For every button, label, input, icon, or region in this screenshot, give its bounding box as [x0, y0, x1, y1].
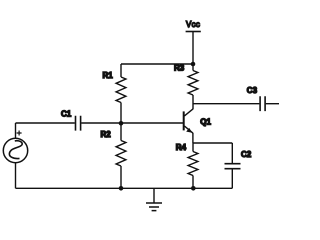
wire top rail R1 to Vcc node: [121, 63, 193, 65]
wire emitter vertical to node: [192, 133, 194, 143]
svg-text:C2: C2: [241, 150, 252, 159]
wire C3 right stub: [266, 103, 279, 105]
transistor Q1 emitter diagonal: [184, 126, 193, 133]
wire output branch to C3: [193, 103, 259, 105]
node R4 bottom junction: [191, 186, 196, 191]
wire C2 top lead: [231, 143, 233, 163]
AC source V1 circle: [3, 138, 27, 162]
capacitor C1: [76, 116, 81, 131]
wire emitter node to C2 branch: [193, 142, 232, 144]
capacitor C2: [225, 164, 241, 169]
transistor Q1 emitter arrowhead: [186, 128, 192, 133]
wire input horizontal to C1: [16, 122, 75, 124]
wire C1 to base node: [81, 122, 121, 124]
wire R4 bottom lead: [192, 176, 194, 189]
resistor R4: [188, 152, 198, 176]
wire R1 bottom lead: [120, 103, 122, 124]
svg-text:C1: C1: [61, 109, 72, 118]
wire bottom rail: [16, 187, 233, 189]
resistor R1: [116, 77, 126, 103]
wire R3 bottom lead to collector: [192, 95, 194, 109]
ground bars: [146, 203, 162, 211]
wire R2 bottom lead: [120, 166, 122, 188]
wire Vcc stem: [192, 32, 194, 65]
resistor R2: [116, 141, 126, 167]
resistor R3: [188, 71, 198, 96]
wire base node to transistor base: [121, 122, 183, 124]
wire R2 top lead: [120, 123, 122, 140]
ground stem: [153, 188, 155, 203]
svg-text:C3: C3: [247, 86, 258, 95]
svg-text:R4: R4: [176, 143, 187, 152]
node Vcc junction: [191, 62, 196, 67]
plus polarity mark: [17, 131, 22, 136]
transistor Q1 collector diagonal: [184, 109, 193, 116]
svg-text:R1: R1: [103, 71, 114, 80]
wire source bottom lead: [15, 163, 17, 189]
transistor Q1 base bar: [183, 111, 185, 130]
AC source sine wave: [9, 141, 22, 159]
wire R3 top lead: [192, 64, 194, 71]
wire source top lead: [15, 123, 17, 138]
node R2 bottom junction: [119, 186, 124, 191]
svg-text:Vcc: Vcc: [186, 20, 200, 29]
wire R1 top lead: [120, 64, 122, 77]
Vcc terminal bar: [186, 31, 201, 33]
svg-text:Q1: Q1: [200, 117, 211, 126]
node base junction: [119, 121, 124, 126]
svg-text:R3: R3: [174, 64, 185, 73]
capacitor C3: [260, 96, 265, 111]
wire R4 top lead: [192, 143, 194, 152]
wire C2 bottom lead: [231, 169, 233, 188]
svg-text:R2: R2: [101, 130, 112, 139]
